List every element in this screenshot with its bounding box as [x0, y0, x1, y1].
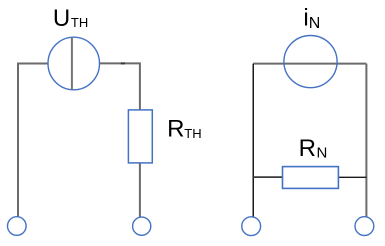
- svg-text:R: R: [167, 116, 184, 143]
- svg-text:TH: TH: [71, 15, 88, 30]
- svg-text:TH: TH: [184, 126, 201, 141]
- svg-text:N: N: [317, 145, 328, 162]
- svg-text:N: N: [309, 15, 321, 32]
- svg-text:U: U: [53, 5, 70, 32]
- svg-text:R: R: [299, 135, 316, 162]
